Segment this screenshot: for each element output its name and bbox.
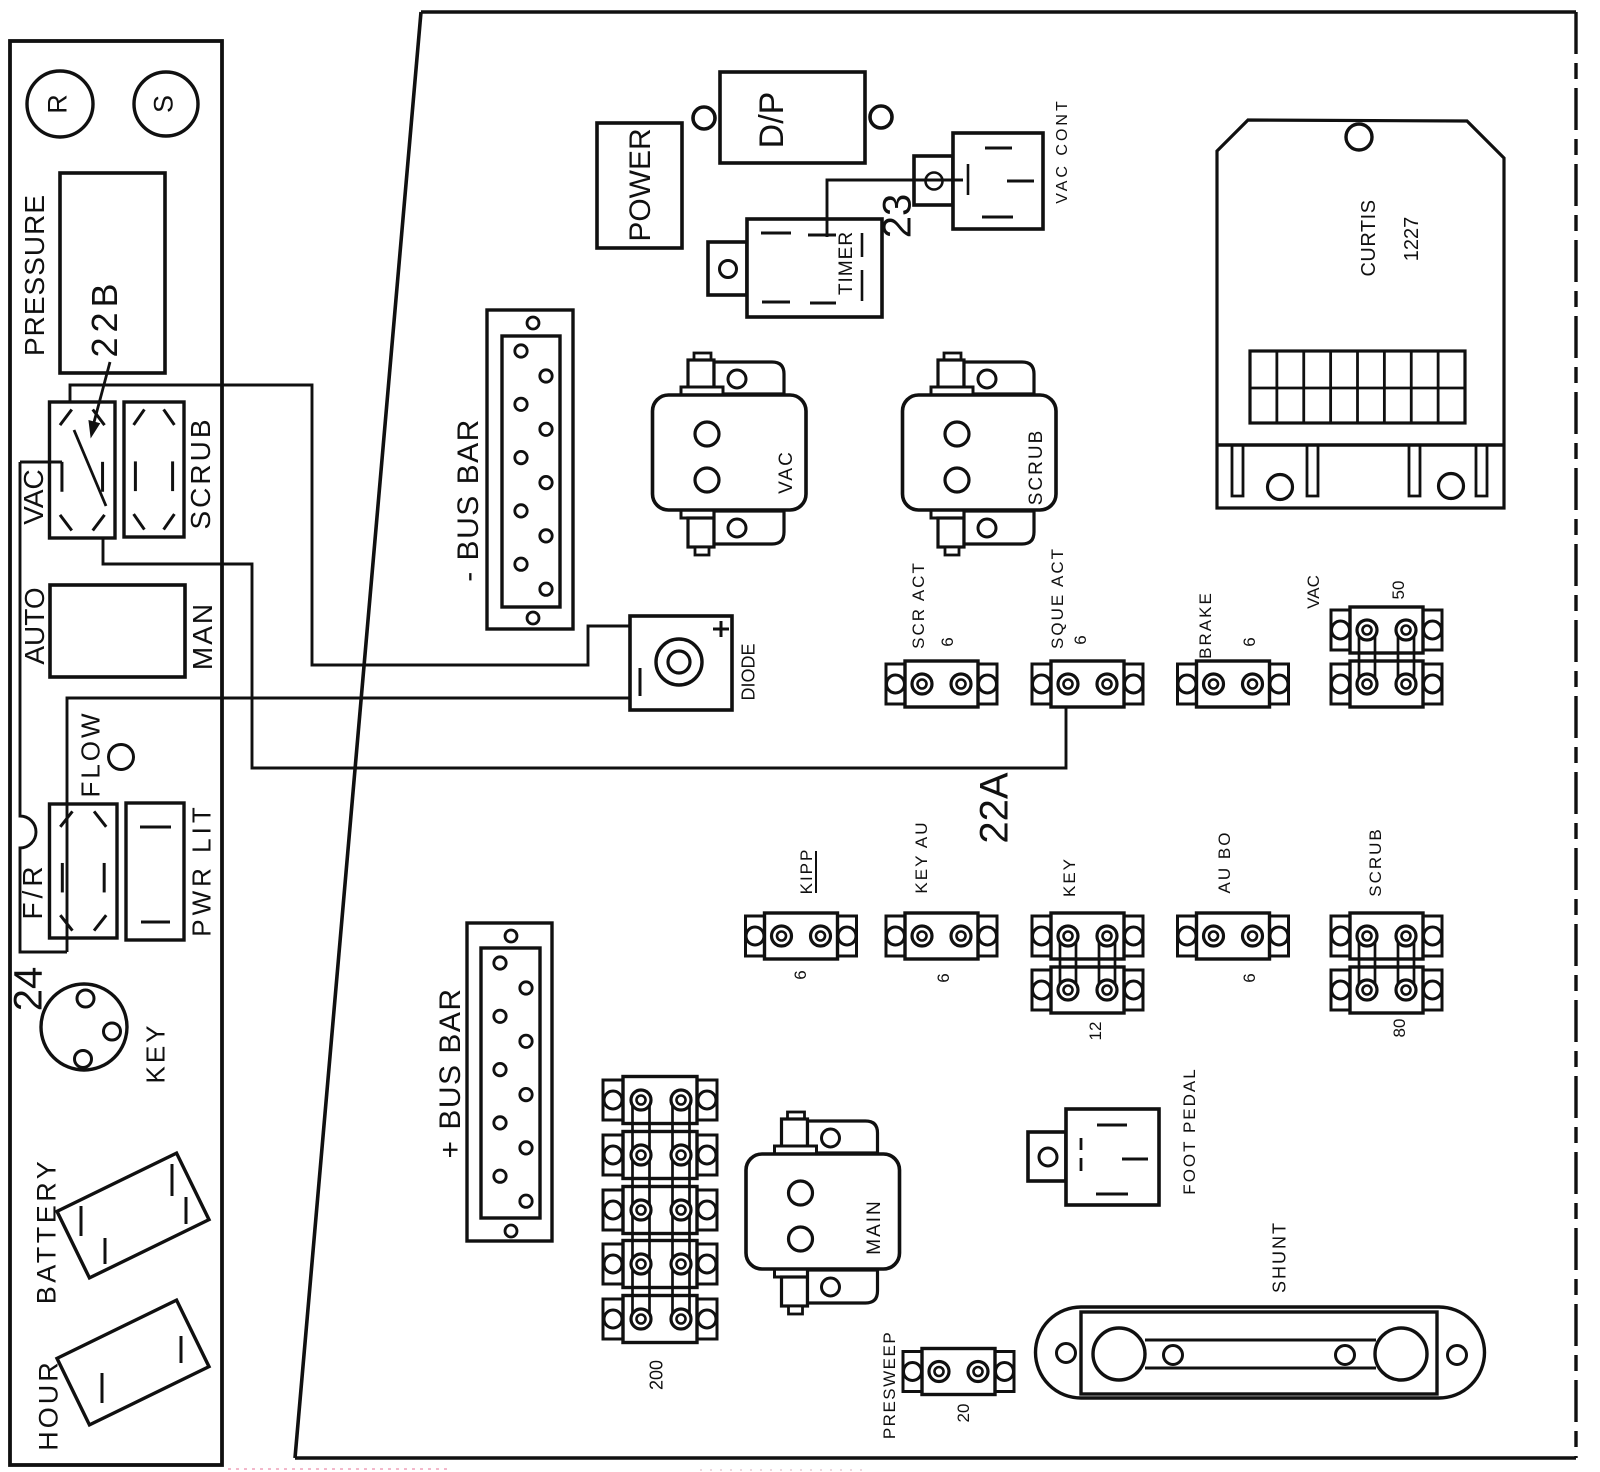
svg-text:22B: 22B	[84, 278, 125, 357]
svg-text:23: 23	[875, 194, 919, 239]
svg-text:TIMER: TIMER	[836, 231, 857, 295]
svg-text:80: 80	[1390, 1019, 1409, 1038]
svg-text:MAN: MAN	[187, 602, 218, 670]
svg-text:SCRUB: SCRUB	[185, 416, 216, 529]
svg-text:KEY AU: KEY AU	[912, 820, 931, 893]
svg-text:VAC CONT: VAC CONT	[1054, 98, 1071, 203]
svg-text:+ BUS BAR: + BUS BAR	[434, 987, 467, 1158]
svg-text:KEY: KEY	[140, 1022, 170, 1083]
svg-text:HOUR: HOUR	[34, 1359, 64, 1451]
svg-text:24: 24	[6, 967, 50, 1012]
svg-text:1227: 1227	[1401, 217, 1423, 262]
svg-text:SCR ACT: SCR ACT	[909, 561, 928, 649]
svg-text:6: 6	[1071, 635, 1090, 644]
svg-text:KEY: KEY	[1060, 857, 1079, 897]
svg-text:D/P: D/P	[753, 92, 791, 149]
svg-text:POWER: POWER	[624, 128, 657, 241]
svg-text:200: 200	[647, 1360, 667, 1390]
svg-text:VAC: VAC	[1304, 575, 1323, 609]
svg-text:PRESWEEP: PRESWEEP	[880, 1331, 899, 1439]
svg-text:VAC: VAC	[18, 469, 49, 525]
svg-text:- BUS BAR: - BUS BAR	[452, 418, 485, 582]
svg-text:6: 6	[791, 970, 810, 979]
svg-text:22A: 22A	[972, 772, 1016, 843]
svg-text:R: R	[43, 94, 73, 114]
svg-text:12: 12	[1086, 1022, 1105, 1041]
svg-text:KIPP: KIPP	[797, 848, 816, 895]
svg-text:DIODE: DIODE	[739, 643, 759, 700]
svg-text:BATTERY: BATTERY	[32, 1158, 62, 1305]
svg-text:MAIN: MAIN	[864, 1199, 885, 1255]
svg-text:FLOW: FLOW	[75, 710, 105, 797]
svg-text:AU BO: AU BO	[1215, 831, 1234, 894]
svg-text:PRESSURE: PRESSURE	[19, 194, 50, 356]
svg-text:SHUNT: SHUNT	[1270, 1221, 1290, 1293]
svg-text:6: 6	[1240, 637, 1259, 646]
svg-text:S: S	[149, 95, 179, 113]
svg-text:6: 6	[934, 973, 953, 982]
svg-text:VAC: VAC	[776, 450, 797, 494]
svg-text:AUTO: AUTO	[19, 587, 50, 664]
svg-text:6: 6	[1240, 973, 1259, 982]
svg-text:FOOT PEDAL: FOOT PEDAL	[1180, 1067, 1199, 1194]
svg-text:SQUE ACT: SQUE ACT	[1048, 547, 1067, 649]
svg-text:BRAKE: BRAKE	[1196, 591, 1215, 659]
svg-text:6: 6	[938, 637, 957, 646]
svg-text:CURTIS: CURTIS	[1358, 199, 1380, 276]
svg-text:F/R: F/R	[17, 862, 48, 919]
svg-text:PWR LIT: PWR LIT	[186, 803, 216, 936]
svg-text:SCRUB: SCRUB	[1026, 429, 1047, 506]
svg-text:20: 20	[954, 1404, 973, 1423]
svg-text:50: 50	[1389, 581, 1408, 600]
svg-text:SCRUB: SCRUB	[1366, 827, 1385, 897]
